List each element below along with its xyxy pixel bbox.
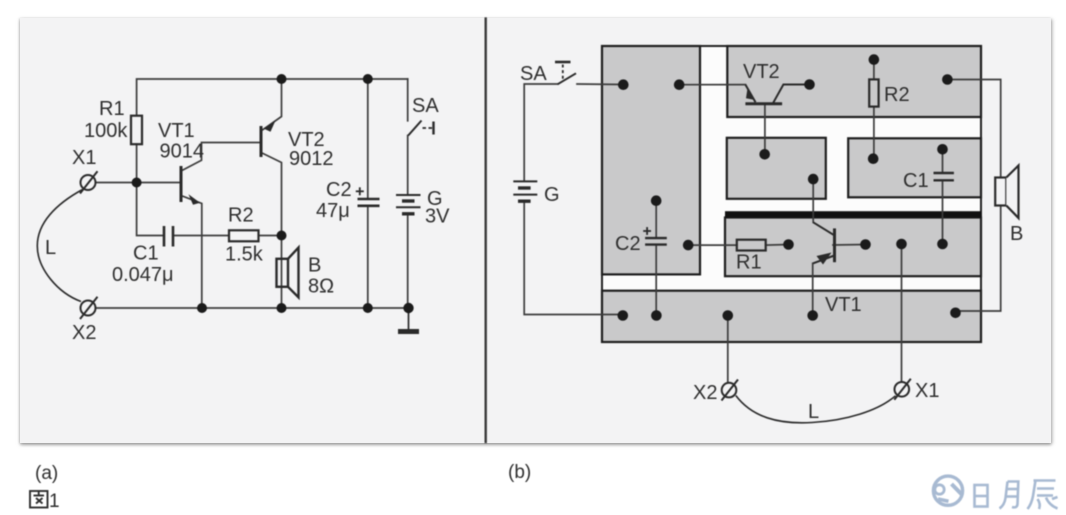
logo mark circle bbox=[933, 476, 962, 505]
capacitor C1 bbox=[163, 226, 166, 247]
wire X2 down bbox=[727, 316, 729, 383]
wire bottom rail bbox=[96, 307, 409, 309]
svg-text:G: G bbox=[544, 184, 560, 206]
wire VT2 collector down to R2 node bbox=[261, 153, 282, 236]
pad dot R1 right bbox=[783, 239, 794, 250]
wire R2 bottom to mid-right rect bbox=[873, 107, 875, 159]
resistor R2 bbox=[229, 230, 259, 241]
svg-text:3V: 3V bbox=[425, 206, 450, 228]
hanzi tu (figure) glyph bbox=[30, 491, 48, 508]
logo hanzi chen bbox=[1028, 481, 1058, 510]
divider between (a) and (b) bbox=[485, 19, 487, 442]
svg-text:R1: R1 bbox=[99, 98, 125, 120]
svg-text:(a): (a) bbox=[35, 463, 58, 484]
svg-text:B: B bbox=[308, 255, 321, 277]
svg-text:C1: C1 bbox=[133, 243, 159, 265]
node dot emitter bottom bbox=[197, 303, 207, 313]
svg-text:C2: C2 bbox=[326, 179, 352, 201]
copper mid-left rect bbox=[727, 138, 826, 199]
pad dot C1 top bbox=[937, 144, 948, 155]
wire C1 to R2 bbox=[174, 235, 230, 237]
wire battery to bottom rail bbox=[407, 214, 409, 308]
pad dot top right bbox=[942, 74, 953, 85]
pad dot strip bottom right bbox=[950, 308, 961, 319]
pad dot C1 bottom bbox=[937, 239, 948, 250]
pad dot strip bottom 2 bbox=[651, 310, 662, 321]
wire SA to board bbox=[577, 83, 623, 86]
speaker B bbox=[277, 259, 289, 287]
pad dot R2 bottom bbox=[868, 153, 879, 164]
pad dot VT1 collector bbox=[808, 174, 819, 185]
pad dot C2b right bbox=[683, 240, 694, 251]
antenna L arc b bbox=[736, 396, 896, 423]
transistor VT2 b arrow bbox=[746, 88, 754, 100]
wire R1 bottom to node bbox=[136, 144, 138, 182]
wire X1 to node bbox=[96, 182, 137, 184]
copper bottom strip bbox=[602, 291, 981, 342]
svg-text:1: 1 bbox=[49, 491, 60, 512]
svg-text:C1: C1 bbox=[903, 170, 929, 192]
wire R1 to VT1 base dot bbox=[766, 244, 789, 247]
wire battery to bottom strip bbox=[524, 202, 623, 315]
wire C2 top bbox=[367, 79, 369, 199]
transistor VT1 emitter arrow bbox=[189, 194, 201, 205]
svg-text:R1: R1 bbox=[736, 252, 762, 274]
pad dot VT2 collector bbox=[804, 79, 815, 90]
svg-text:9014: 9014 bbox=[160, 141, 205, 163]
svg-text:L: L bbox=[808, 401, 819, 423]
wire top rail bbox=[137, 79, 408, 116]
wire C1 top bbox=[942, 149, 944, 172]
resistor R2 b bbox=[869, 79, 878, 106]
node dot C2 top bbox=[363, 74, 373, 84]
copper middle band bbox=[725, 218, 981, 277]
transistor VT1 bbox=[180, 166, 183, 202]
svg-text:X1: X1 bbox=[915, 380, 939, 402]
pad dot R2 top bbox=[869, 54, 880, 65]
transistor VT1 b arrow bbox=[817, 253, 832, 265]
svg-text:9012: 9012 bbox=[289, 148, 334, 170]
terminal X1 bbox=[81, 175, 96, 190]
wire C2b bottom to strip bbox=[655, 245, 657, 315]
logo hanzi ri (sun) bbox=[975, 485, 988, 507]
wire R2 to VT2 collector node bbox=[259, 235, 282, 237]
battery G b bbox=[513, 180, 537, 182]
svg-text:VT1: VT1 bbox=[158, 120, 195, 142]
copper mid-right rect bbox=[848, 138, 981, 197]
FOOTER bbox=[35, 462, 531, 512]
node dot ground bbox=[403, 303, 413, 313]
C2 plus sign bbox=[356, 190, 364, 192]
svg-text:VT1: VT1 bbox=[825, 294, 862, 316]
node dot R2-VT2 bbox=[277, 231, 287, 241]
svg-text:X2: X2 bbox=[693, 382, 717, 404]
PCB board outline bbox=[602, 46, 981, 342]
ground bbox=[408, 308, 410, 330]
pad dot VT2 base bbox=[759, 149, 770, 160]
svg-text:C2: C2 bbox=[615, 233, 641, 255]
battery G bbox=[396, 194, 421, 196]
pad dot VT1 base bbox=[860, 239, 871, 250]
wire VT1 base bbox=[137, 182, 180, 184]
figure panel background bbox=[20, 18, 1051, 443]
capacitor C2 b bbox=[645, 237, 667, 239]
pad dot strip bottom X2 bbox=[723, 310, 734, 321]
wire VT1 emitter down bbox=[812, 263, 814, 315]
svg-text:1.5k: 1.5k bbox=[225, 244, 264, 266]
node dot speaker bottom bbox=[277, 303, 287, 313]
logo hanzi yue (moon) bbox=[1000, 482, 1019, 509]
svg-text:X2: X2 bbox=[72, 322, 96, 344]
transistor VT2 b bbox=[745, 102, 782, 105]
svg-text:SA: SA bbox=[520, 63, 547, 85]
wire VT2 emitter from left strip bbox=[679, 84, 745, 86]
wire top-right to speaker bbox=[947, 80, 1000, 312]
svg-text:47μ: 47μ bbox=[316, 200, 350, 222]
wire VT2 base down bbox=[764, 105, 766, 155]
transistor VT1 b bbox=[833, 228, 836, 262]
wire VT1 collector up and to VT2 base bbox=[181, 143, 260, 172]
wire VT1 collector from mid-left rect bbox=[812, 179, 814, 222]
svg-text:0.047μ: 0.047μ bbox=[112, 264, 174, 286]
svg-text:100k: 100k bbox=[84, 120, 128, 142]
copper top rect bbox=[727, 46, 981, 117]
svg-text:B: B bbox=[1010, 223, 1023, 245]
wire C2b dot to R1 bbox=[688, 244, 737, 246]
svg-text:X1: X1 bbox=[72, 147, 96, 169]
pad dot left strip 1 bbox=[618, 79, 629, 90]
transistor VT2 emitter arrow bbox=[264, 121, 276, 132]
wire X1 down bbox=[901, 244, 903, 382]
switch SA b bbox=[558, 73, 577, 84]
PANEL A bbox=[96, 79, 409, 308]
pad dot X1 top bbox=[896, 239, 907, 250]
pad dot strip bottom VT1 bbox=[807, 310, 818, 321]
wire VT1 base dot to bar bbox=[833, 244, 866, 247]
pad dot strip bottom 1 bbox=[618, 310, 629, 321]
svg-text:R2: R2 bbox=[884, 84, 910, 106]
wire SA to battery bbox=[407, 136, 409, 195]
wire C1 bottom to band bbox=[942, 182, 944, 245]
speaker B b bbox=[995, 178, 1006, 206]
svg-text:R2: R2 bbox=[228, 205, 254, 227]
wire C2b top bbox=[655, 201, 657, 237]
terminal X1 b bbox=[895, 382, 910, 397]
capacitor C1 b bbox=[934, 172, 954, 174]
resistor R1 bbox=[131, 116, 142, 145]
svg-text:(b): (b) bbox=[508, 462, 531, 483]
node dot base bbox=[132, 178, 142, 188]
svg-text:SA: SA bbox=[412, 95, 439, 117]
node dot VT2 emitter top bbox=[277, 74, 287, 84]
terminal X2 bbox=[81, 301, 96, 316]
wire SA top bbox=[407, 79, 409, 121]
wire C2 bottom bbox=[367, 206, 369, 308]
transistor VT2 bbox=[260, 126, 263, 157]
pad dot C2b top bbox=[651, 195, 662, 206]
C2 b plus sign bbox=[643, 230, 651, 232]
wire SA corner to battery bbox=[524, 84, 558, 181]
pad dot left strip 2 bbox=[674, 79, 685, 90]
node dot C2 bottom bbox=[363, 303, 373, 313]
svg-text:8Ω: 8Ω bbox=[308, 276, 334, 298]
wire VT2 emitter to top rail bbox=[261, 79, 282, 131]
antenna wire L arc bbox=[37, 190, 82, 302]
wire node to C1 bbox=[137, 183, 164, 236]
wire speaker feed bbox=[281, 236, 283, 309]
svg-text:VT2: VT2 bbox=[743, 61, 780, 83]
switch SA bbox=[408, 121, 421, 136]
capacitor C2 bbox=[358, 198, 380, 201]
svg-text:L: L bbox=[45, 237, 56, 259]
copper left strip bbox=[602, 46, 700, 274]
resistor R1 b bbox=[737, 240, 766, 251]
wire R2 top bbox=[873, 60, 875, 80]
thick black trace bar bbox=[725, 211, 981, 217]
wire VT1 emitter down to bottom rail bbox=[181, 196, 202, 309]
terminal X2 b bbox=[722, 383, 737, 398]
